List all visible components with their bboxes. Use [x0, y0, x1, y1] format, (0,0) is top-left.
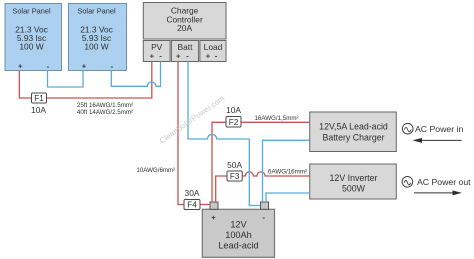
svg-text:F4: F4: [187, 200, 197, 209]
fuse F1: [32, 93, 47, 103]
svg-text:Solar Panel: Solar Panel: [77, 7, 116, 16]
svg-text:F1: F1: [34, 94, 44, 103]
fuse F2: [226, 117, 241, 128]
charge controller U1: [143, 3, 226, 40]
svg-text:Battery Charger: Battery Charger: [322, 133, 384, 143]
wire: PV1+ to F1 to PV+ (red): [19, 62, 152, 99]
wire: battery + post up to F2 to charger (red): [212, 122, 310, 202]
svg-text:100Ah: 100Ah: [225, 230, 252, 240]
wire: PV2- to PV- with hop over red (blue): [111, 62, 160, 87]
svg-text:+: +: [176, 51, 181, 60]
arrow: AC power in direction (left): [413, 138, 462, 143]
svg-text:+: +: [82, 62, 87, 71]
svg-text:F2: F2: [229, 118, 239, 127]
fuse F3: [227, 171, 242, 181]
wire: PV1- to PV2+ (blue series link): [48, 71, 84, 88]
svg-text:12V: 12V: [230, 220, 247, 230]
svg-text:+: +: [206, 51, 211, 60]
AC source symbol: AC power out: [402, 177, 413, 188]
arrow: AC power out direction (right): [414, 190, 462, 195]
wire: battery - post up to charger (blue): [263, 140, 310, 202]
controller PV terminal block: [143, 41, 170, 62]
battery charger U2: [310, 112, 397, 152]
svg-text:+: +: [150, 51, 155, 60]
svg-text:20A: 20A: [177, 23, 192, 33]
wire: Batt- down across (hop over red pair) to battery - post (blue): [188, 62, 261, 206]
svg-text:10AWG/6mm²: 10AWG/6mm²: [136, 167, 175, 174]
svg-text:Solar Panel: Solar Panel: [12, 7, 51, 16]
svg-text:100 W: 100 W: [84, 42, 108, 52]
battery positive terminal post: [210, 202, 218, 209]
svg-text:AC Power in: AC Power in: [415, 124, 463, 134]
svg-text:25ft 16AWG/1.5mm²: 25ft 16AWG/1.5mm²: [77, 102, 133, 109]
svg-text:16AWG/1,5mm²: 16AWG/1,5mm²: [254, 115, 298, 122]
svg-text:12V Inverter: 12V Inverter: [330, 173, 378, 183]
fuse F4: [184, 200, 200, 210]
svg-text:40ft 14AWG/2.5mm²: 40ft 14AWG/2.5mm²: [77, 109, 133, 116]
svg-text:50A: 50A: [227, 160, 242, 170]
svg-text:F3: F3: [230, 172, 240, 181]
controller Load terminal block: [200, 41, 226, 62]
svg-text:+: +: [211, 213, 216, 222]
svg-text:100 W: 100 W: [19, 42, 43, 52]
controller Batt terminal block: [171, 41, 198, 62]
svg-text:10A: 10A: [31, 105, 46, 115]
svg-text:10A: 10A: [226, 105, 241, 115]
wire: Batt+ down to F4 to battery + post (red): [178, 62, 210, 205]
svg-text:AC Power out: AC Power out: [417, 177, 471, 187]
svg-text:Lead-acid: Lead-acid: [218, 240, 258, 250]
solar panel PV1: [5, 4, 62, 72]
solar panel PV2: [69, 4, 127, 72]
svg-text:30A: 30A: [185, 188, 200, 198]
AC source symbol: AC power in: [402, 123, 413, 134]
inverter U3: [310, 164, 397, 199]
battery negative terminal post: [261, 202, 269, 209]
battery B1 12V 100Ah: [202, 209, 274, 257]
svg-text:+: +: [18, 62, 23, 71]
svg-text:12V,5A Lead-acid: 12V,5A Lead-acid: [319, 122, 388, 132]
svg-text:500W: 500W: [342, 184, 366, 194]
svg-text:6AWG/16mm²: 6AWG/16mm²: [268, 168, 307, 175]
wire: battery + post up to F3 to inverter with two hops (red): [216, 172, 310, 202]
wire: battery - post up to inverter (blue): [266, 193, 310, 202]
